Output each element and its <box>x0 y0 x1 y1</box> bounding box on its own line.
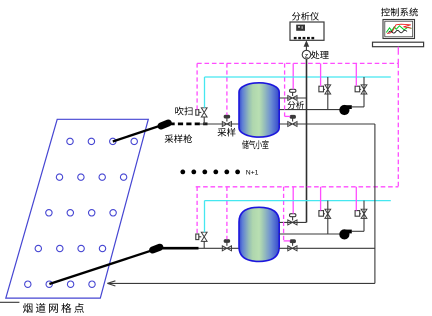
control line to WV1 <box>285 63 291 116</box>
label 吹扫 <box>175 107 192 116</box>
svg-text:N+1: N+1 <box>246 169 259 176</box>
purge valve PB2 <box>352 201 367 232</box>
pump suction pipe 2 <box>279 233 340 235</box>
control line to PV2 <box>196 187 198 234</box>
monitor green trace <box>386 26 411 33</box>
monitor red trace <box>387 24 411 33</box>
return line to duct <box>107 281 375 286</box>
control line to SV2 <box>226 187 228 240</box>
gas chamber tank T2 <box>239 207 279 261</box>
monitor black trace <box>389 30 408 33</box>
sample line 1 <box>199 123 239 125</box>
purge valve PB1 <box>319 201 331 234</box>
sampling valve SV2 <box>222 240 231 251</box>
sampling pump P2 <box>339 229 352 239</box>
grid measurement points <box>25 138 138 287</box>
purge air drop 1 <box>204 77 206 108</box>
svg-text:z: z <box>305 52 309 59</box>
label 烟道网格点 <box>23 303 84 313</box>
label 采样 <box>218 128 236 137</box>
label 储气小室 <box>242 140 268 149</box>
monitor <box>383 20 415 39</box>
control line to PB2 <box>355 187 357 211</box>
purge valve PV2 <box>196 232 207 248</box>
control line to AV2 <box>292 187 294 214</box>
analysis valve AV2 <box>288 214 297 225</box>
keyboard base <box>373 42 424 47</box>
sampling pump P1 <box>339 105 352 115</box>
control line to PA2 <box>355 63 357 86</box>
label 处理 <box>311 51 329 59</box>
control line to PA1 <box>320 63 322 86</box>
purge valve PA2 <box>352 77 367 107</box>
control line to WV2 <box>284 187 291 241</box>
gas chamber tank T1 <box>239 83 279 137</box>
analyzer box <box>290 22 324 40</box>
label 分析仪 <box>292 12 319 20</box>
vent pipe 2 <box>279 247 375 249</box>
analysis pipe 1 <box>279 97 306 99</box>
waste valve WV1 <box>288 115 297 126</box>
label 分析 <box>288 101 304 109</box>
vent pipe 1 <box>279 123 375 125</box>
repetition dots <box>180 170 240 175</box>
sampling valve SV1 <box>222 115 231 126</box>
vent riser <box>374 124 376 283</box>
waste valve WV2 <box>288 240 297 251</box>
purge line 1 <box>205 76 391 78</box>
label N+1 <box>246 169 259 176</box>
heated hose dashes 1 <box>170 123 208 126</box>
purge valve PV1 <box>196 108 207 124</box>
analysis valve AV1 <box>288 89 297 100</box>
purge valve PA1 <box>319 77 331 110</box>
control bus top <box>197 62 398 64</box>
arrow into analyzer <box>304 41 308 50</box>
ground tick line <box>0 301 19 303</box>
control line to PB1 <box>320 187 322 211</box>
sampling gun probe 1 <box>113 123 169 142</box>
analysis header line <box>306 59 308 223</box>
control bus drop from console <box>397 47 399 64</box>
sampling gun probe 2 <box>49 247 159 284</box>
control line to SV1 <box>226 63 228 115</box>
label 控制系统 <box>381 8 418 17</box>
analyzer display icon <box>296 25 305 31</box>
analysis pipe 2 <box>279 221 306 223</box>
control line to PV1 <box>196 63 198 109</box>
control bus right <box>397 63 399 186</box>
sample conditioner circle <box>302 50 311 59</box>
flue duct grid panel <box>6 119 149 298</box>
control bus lower <box>196 186 399 188</box>
control line to AV1 <box>292 63 294 89</box>
analyzer dash row <box>294 37 314 39</box>
sample line 2 <box>199 247 240 249</box>
label 采样枪 <box>165 134 193 143</box>
purge air drop 2 <box>204 201 206 233</box>
pump suction pipe 1 <box>279 109 340 111</box>
purge line 2 <box>205 200 391 202</box>
sample hose 2 <box>160 247 199 250</box>
